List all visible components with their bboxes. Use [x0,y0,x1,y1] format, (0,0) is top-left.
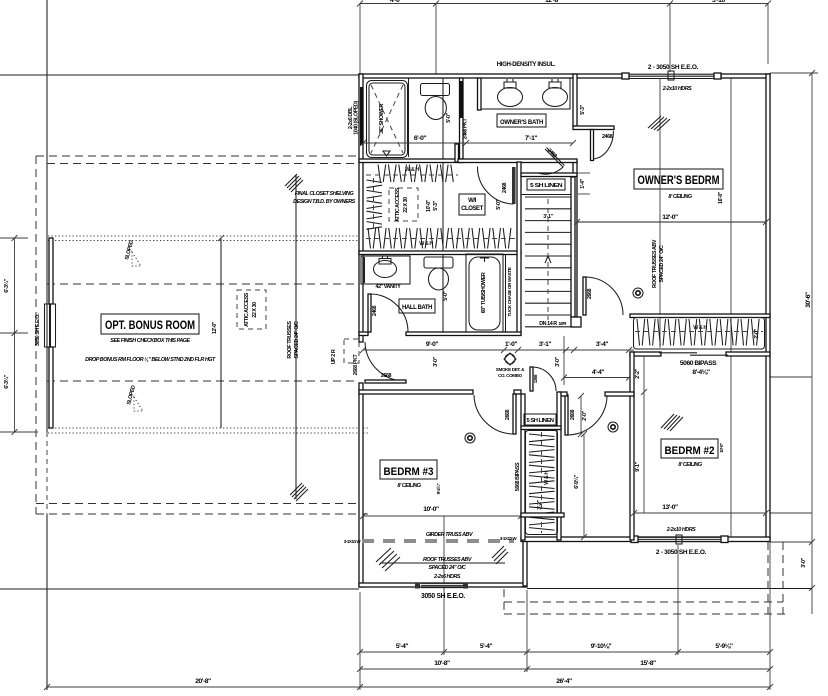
hall bath door 2468 [368,294,408,332]
6'-9 dim [583,434,585,537]
svg-text:TUCK CHASE OR WASTE: TUCK CHASE OR WASTE [507,267,512,316]
svg-text:3'-0": 3'-0" [433,356,439,366]
smoke detector [633,288,643,298]
svg-text:16'-0": 16'-0" [718,191,724,204]
svg-text:2668 PKT: 2668 PKT [353,354,359,376]
svg-text:5'-0": 5'-0" [446,112,452,122]
svg-text:ATTIC ACCESS: ATTIC ACCESS [244,292,250,327]
bottom wall (south, bedrm2 + hall) [521,537,770,542]
bottom extension lines [359,592,361,690]
dim line 6'-0 / 7'-1 [363,142,573,144]
svg-text:8' CEILING: 8' CEILING [668,194,692,200]
svg-text:2-2x10 HDRS: 2-2x10 HDRS [662,86,692,92]
svg-text:12'-0": 12'-0" [212,321,218,334]
svg-text:7'-1": 7'-1" [525,135,537,142]
bedroom2 window 2-3050 [631,527,728,556]
stair treads [525,197,571,327]
svg-text:OWNER'S BEDRM: OWNER'S BEDRM [638,173,720,187]
stair right wall [571,177,575,317]
svg-text:36" SHOWER: 36" SHOWER [379,104,385,134]
svg-text:BEDRM #2: BEDRM #2 [665,445,715,457]
svg-text:3'-1": 3'-1" [539,341,551,348]
svg-text:2668: 2668 [570,409,576,420]
svg-text:1'-0": 1'-0" [505,341,517,348]
left vertical reference line [46,0,48,432]
svg-text:3-1X10 W: 3-1X10 W [500,536,518,541]
owner's closet [630,314,770,349]
OPT. BONUS ROOM label [85,314,216,363]
svg-text:5'-3": 5'-3" [433,200,439,210]
svg-text:SEE FINISH CHECKBOX THIS PAGE: SEE FINISH CHECKBOX THIS PAGE [110,338,190,344]
svg-text:3'-0": 3'-0" [801,557,807,567]
svg-text:1040 (SLOPED): 1040 (SLOPED) [354,101,360,135]
svg-text:2468 PKT: 2468 PKT [463,118,469,140]
right wall [766,74,770,540]
svg-text:2 - 3050 SH E.E.O.: 2 - 3050 SH E.E.O. [648,64,699,71]
svg-text:UP 2 R: UP 2 R [331,349,337,364]
sill hatch [648,116,670,131]
hall bath bottom wall [359,332,368,336]
svg-text:W/I: W/I [468,198,476,204]
left dimension line [0,235,38,435]
svg-text:OPT. BONUS ROOM: OPT. BONUS ROOM [105,318,195,332]
smoke det combo [496,353,525,378]
svg-text:ROOF TRUSSES ABV: ROOF TRUSSES ABV [423,557,472,563]
svg-text:10'-0": 10'-0" [719,443,724,453]
svg-text:15'-8": 15'-8" [640,660,656,667]
svg-text:4'-0": 4'-0" [390,0,402,4]
svg-text:22 X 30: 22 X 30 [403,197,409,213]
bedroom3 right wall [523,540,527,586]
bedroom3 window 3050 [415,583,468,600]
10'-0 dim [363,515,521,517]
svg-text:5'-0": 5'-0" [443,290,449,300]
svg-text:12'-0": 12'-0" [662,214,678,221]
top rod & shelf band [366,165,458,183]
owner's room dimension 12'-0" [577,221,766,223]
entry walls [559,392,567,396]
bedroom3 door 2668 [474,394,516,434]
shower [348,81,408,158]
svg-text:9'-2¼": 9'-2¼" [435,483,441,494]
pocket door wall [460,78,464,160]
left wall [630,352,634,540]
svg-text:3050 SH E.E.O.: 3050 SH E.E.O. [35,313,41,346]
W/I CLOSET label [459,194,485,215]
svg-text:ROOF TRUSSES ABV: ROOF TRUSSES ABV [652,239,658,288]
bottom wall bedroom3 [359,583,527,587]
interior vertical lines [659,78,661,348]
svg-text:W & H: W & H [693,325,707,331]
svg-text:W & H: W & H [544,471,550,485]
toilet [424,257,453,301]
svg-text:1'-4": 1'-4" [580,178,586,188]
svg-text:5060 BIPASS: 5060 BIPASS [680,360,717,367]
closet bottom wall with bipass [630,352,661,356]
svg-text:26'-4": 26'-4" [556,678,572,685]
attic access dashed box (closet) rotated [389,187,418,222]
smoke detector [608,422,618,432]
dotted ceiling break lines [48,235,359,237]
vanity [361,256,410,290]
svg-text:2'-2": 2'-2" [635,368,641,378]
svg-text:8'-4⅛": 8'-4⅛" [692,369,710,376]
svg-text:3'-2": 3'-2" [537,499,543,509]
owner's bath right wall [573,74,577,126]
door to bonus room 2668 [353,342,406,383]
outer dashed attic outline [36,155,359,157]
stair left wall [517,162,521,334]
HALL BATH label [399,299,435,313]
svg-text:2-2x6 HDRS: 2-2x6 HDRS [433,574,461,580]
svg-text:1368: 1368 [533,374,538,383]
svg-text:GIRDER TRUSS ABV: GIRDER TRUSS ABV [426,532,473,538]
svg-text:10'-0": 10'-0" [423,506,439,513]
wall below closet [359,251,521,255]
linen top wall [521,173,577,177]
toilet room [421,78,453,332]
svg-text:DROP BONUS RM FLOOR ¾" BELOW S: DROP BONUS RM FLOOR ¾" BELOW STND 2ND FL… [85,357,216,363]
svg-text:42" VANITY: 42" VANITY [376,284,402,290]
svg-text:2-2x10 HDRS: 2-2x10 HDRS [666,527,696,533]
svg-text:10'-0": 10'-0" [426,199,432,212]
hall dim line 9'-0 / 1'-0 / 3'-1 / 3'-4 [363,349,634,351]
svg-text:3'-4": 3'-4" [596,341,608,348]
owner's bedroom entry door 2668 [583,277,623,315]
attic access dashed box (bonus) [237,290,266,329]
svg-text:DN 14 R: DN 14 R [539,321,557,327]
door 2668 into bedroom2 [565,393,607,437]
13'-0 dim [634,512,766,514]
svg-text:5'-10": 5'-10" [712,0,728,4]
svg-text:5 SH LINEN: 5 SH LINEN [530,183,563,189]
svg-text:W & H: W & H [405,167,419,173]
svg-text:DESIGN T.B.D. BY OWNERS: DESIGN T.B.D. BY OWNERS [293,199,355,205]
svg-text:OWNER'S BATH: OWNER'S BATH [500,119,544,126]
svg-text:5'-4": 5'-4" [396,643,408,650]
bonus room interior vertical line 12'-0" [220,238,222,428]
owner's bath vanity [478,78,571,110]
svg-text:4'-4": 4'-4" [592,369,604,376]
svg-text:3-1X10 W: 3-1X10 W [344,539,362,544]
svg-text:10'-8": 10'-8" [434,660,450,667]
bonus room left wall with window [49,238,53,304]
top window 2-3050 [622,64,721,92]
svg-text:CLOSET: CLOSET [461,206,483,212]
interior sloped-ceiling dashed lines [47,283,359,285]
svg-text:HIGH-DENSITY INSUL.: HIGH-DENSITY INSUL. [497,62,556,68]
stair center dashed line + arrow [547,199,549,320]
smoke detector [465,433,475,443]
svg-text:W & H: W & H [419,241,433,247]
bottom dimension lines [44,643,773,690]
svg-text:SPACED 24" O/C: SPACED 24" O/C [659,245,665,282]
top dimension line [357,0,771,7]
svg-text:5 SH LINEN: 5 SH LINEN [527,418,555,424]
svg-text:12'-8": 12'-8" [545,0,561,4]
4'-4" dim [564,377,629,379]
sloped markers [124,240,143,411]
interior vertical line + 9'-1 [643,356,645,513]
wall below shower/toilet [359,159,463,163]
top wall [359,74,622,78]
svg-text:3'-0": 3'-0" [555,356,561,366]
svg-text:2'-0": 2'-0" [582,410,588,420]
svg-text:2668: 2668 [381,373,392,379]
svg-text:9'-1": 9'-1" [635,461,641,471]
svg-text:8' CEILING: 8' CEILING [678,462,702,468]
UP 2 R step [331,339,359,364]
right dimension line 30'-6" [770,70,818,614]
5 SH LINEN (hall) [524,414,556,425]
svg-text:5068 BIPASS: 5068 BIPASS [515,462,521,491]
svg-text:5'-0": 5'-0" [496,199,502,209]
closet door 2468 [477,167,515,210]
top wall [359,390,473,394]
svg-text:BEDRM #3: BEDRM #3 [384,466,434,478]
svg-text:ATTIC ACCESS: ATTIC ACCESS [395,187,401,222]
svg-text:HALL BATH: HALL BATH [402,304,433,311]
svg-text:22 X 30: 22 X 30 [252,302,258,318]
svg-text:8' CEILING: 8' CEILING [397,483,421,489]
svg-text:30'-6": 30'-6" [805,292,812,308]
svg-text:6'-9¼": 6'-9¼" [573,474,580,488]
svg-text:SMOKE DET. &: SMOKE DET. & [496,367,525,372]
svg-text:2468: 2468 [602,134,613,140]
svg-text:6'-0": 6'-0" [414,135,426,142]
roof truss line [295,175,297,499]
svg-text:6'-3¼": 6'-3¼" [3,278,10,292]
bottom rod & shelf band [366,228,515,249]
svg-text:5'-4": 5'-4" [480,643,492,650]
svg-text:2'-0": 2'-0" [754,328,760,338]
svg-text:9'-10⅛": 9'-10⅛" [591,643,612,650]
tub [466,254,503,333]
svg-text:2 - 3050 SH E.E.O.: 2 - 3050 SH E.E.O. [656,549,707,556]
extension lines from top dim to building [359,4,361,75]
svg-text:FINAL CLOSET SHELVING: FINAL CLOSET SHELVING [295,191,355,197]
svg-text:13'-0": 13'-0" [662,504,678,511]
diagonal linen door 2468 [538,148,565,175]
svg-text:3050 SH E.E.O.: 3050 SH E.E.O. [421,591,465,600]
wall shower/toilet [408,78,410,157]
svg-text:CO. COMBO: CO. COMBO [498,373,523,378]
lower roof outline line (left) [0,74,359,76]
svg-text:SPACED 24" O/C: SPACED 24" O/C [429,565,466,571]
svg-text:2668: 2668 [587,288,593,299]
2'-2" vertical dim [641,389,647,395]
svg-text:2468: 2468 [502,182,508,193]
svg-text:2468: 2468 [372,305,378,316]
svg-text:9'-0": 9'-0" [426,341,438,348]
sill hatch [661,414,683,431]
door 2468 to owner's bedroom [573,126,614,161]
svg-text:6'-3¼": 6'-3¼" [3,374,10,388]
hall small door (closet vestibule) [530,367,556,391]
svg-text:5'-3": 5'-3" [580,104,586,114]
svg-text:16'R: 16'R [558,321,567,326]
svg-text:5'-9⅛": 5'-9⅛" [715,643,733,650]
svg-text:2668: 2668 [505,409,511,420]
left wall of main building [359,74,363,342]
girder truss dashed gray [344,532,518,544]
covered patio dashed outline [504,601,783,603]
svg-text:60" TUB/SHOWER: 60" TUB/SHOWER [481,272,487,313]
svg-text:ROOF TRUSSES: ROOF TRUSSES [287,321,293,359]
svg-text:SPACED 24" O/C: SPACED 24" O/C [294,321,300,358]
svg-text:20'-8": 20'-8" [195,678,211,685]
left rod & shelf band [367,178,383,230]
